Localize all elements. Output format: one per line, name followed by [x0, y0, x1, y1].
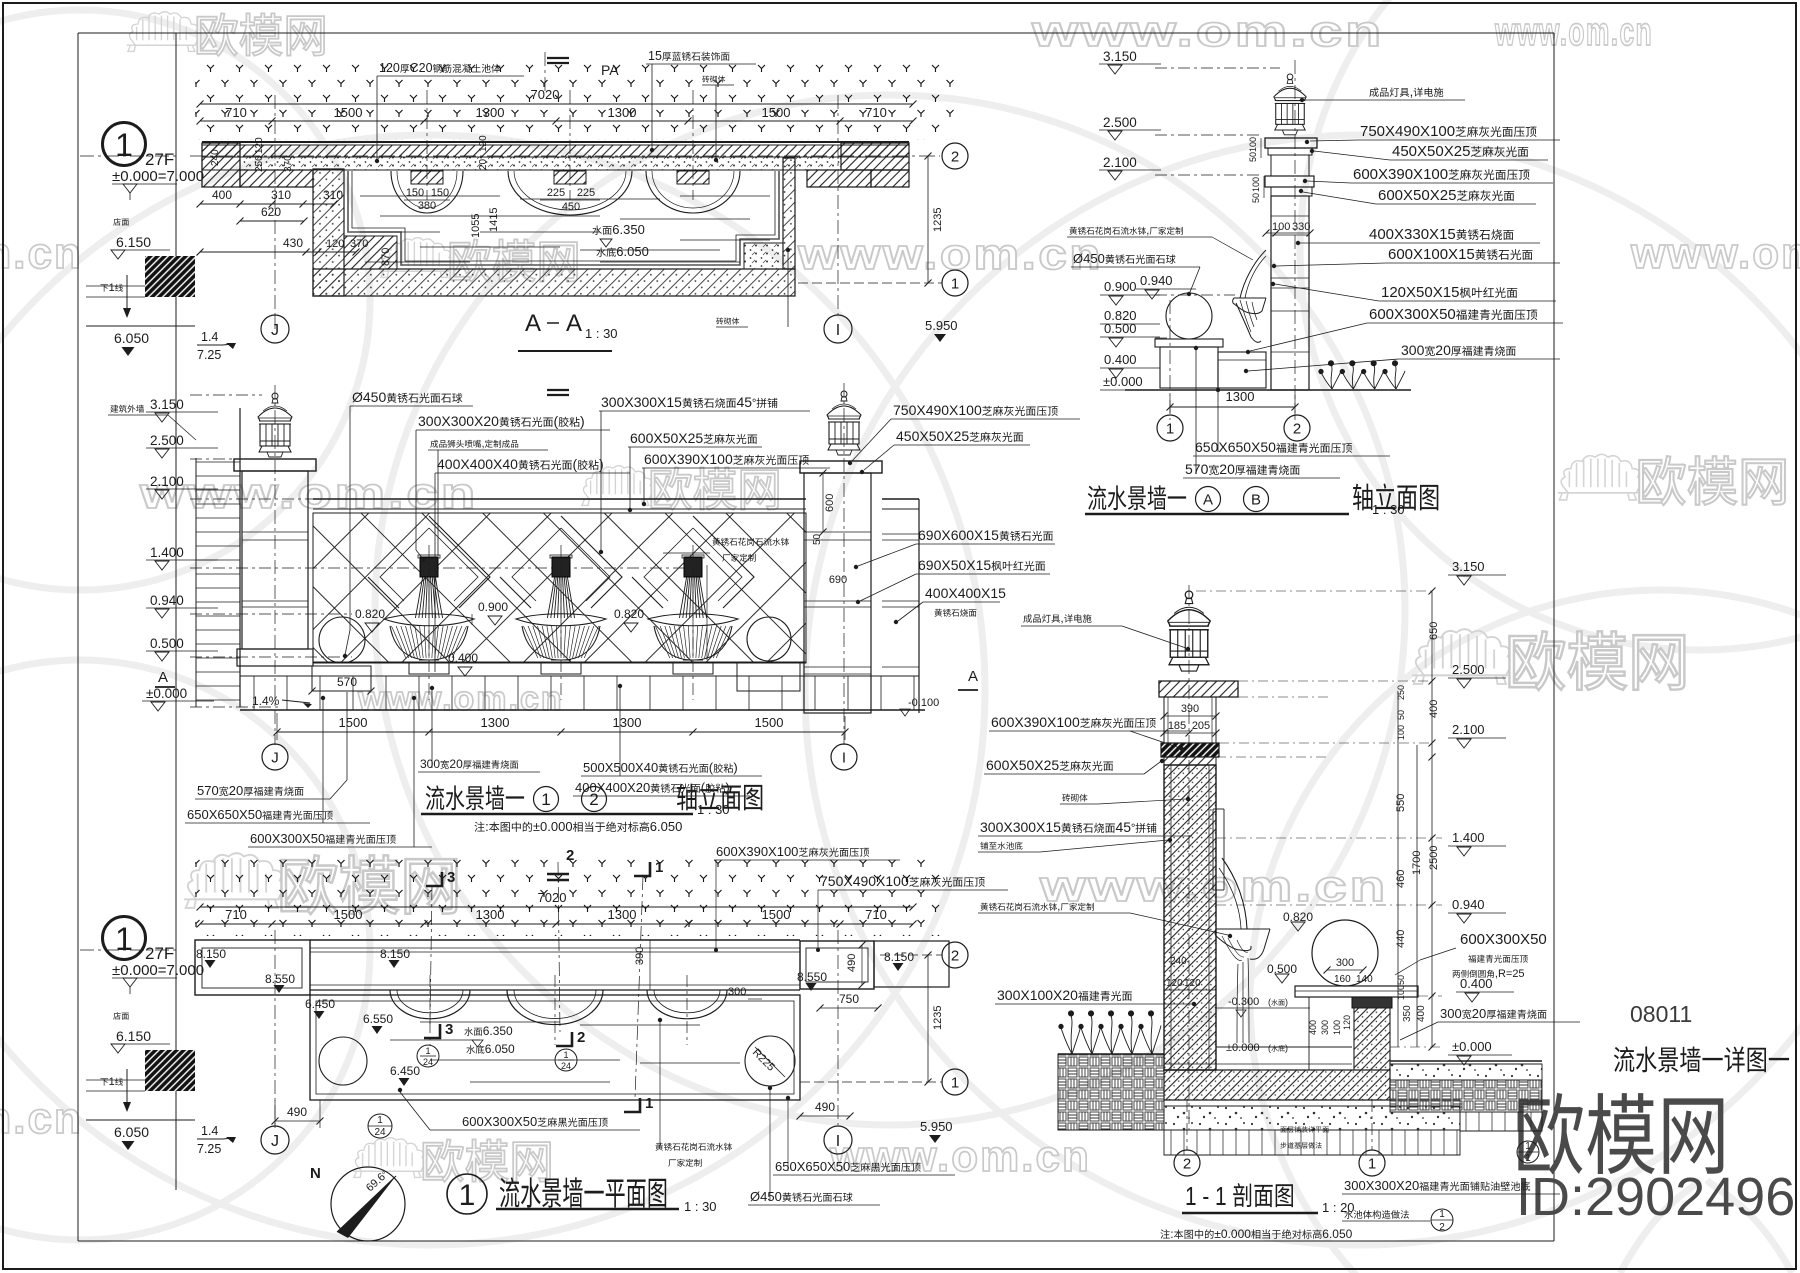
svg-text:2: 2: [951, 947, 959, 964]
svg-text:0.940: 0.940: [1140, 273, 1173, 288]
svg-text:120X50X15: 120X50X15: [1381, 284, 1459, 301]
svg-text::: :: [485, 819, 489, 834]
svg-text:1500: 1500: [762, 907, 791, 922]
svg-text:1300: 1300: [1226, 389, 1255, 404]
svg-text:2500: 2500: [1428, 846, 1440, 870]
svg-text:750X490X100: 750X490X100: [1360, 123, 1455, 140]
svg-text:1300: 1300: [608, 105, 637, 120]
svg-text:7.25: 7.25: [197, 348, 221, 362]
svg-text:2.500: 2.500: [1452, 662, 1485, 677]
svg-text:225: 225: [547, 187, 565, 199]
svg-text:1: 1: [115, 921, 133, 957]
svg-text:1: 1: [951, 275, 959, 292]
svg-text:0.400: 0.400: [1460, 976, 1493, 991]
svg-text:600X100X15: 600X100X15: [1388, 246, 1475, 263]
svg-text:1: 1: [1368, 1155, 1376, 1172]
svg-text:6.450: 6.450: [305, 997, 335, 1011]
svg-text:0.400: 0.400: [448, 651, 478, 665]
svg-text:690: 690: [829, 574, 847, 586]
svg-text:1.4: 1.4: [201, 330, 218, 344]
svg-text:300X300X20: 300X300X20: [418, 413, 499, 429]
svg-text:0.820: 0.820: [614, 607, 644, 621]
svg-text:(: (: [701, 780, 706, 795]
svg-text:J: J: [271, 1133, 279, 1150]
svg-text:8.550: 8.550: [265, 972, 295, 986]
svg-text:160: 160: [1334, 974, 1351, 985]
svg-text:710: 710: [225, 907, 247, 922]
svg-text:www.om.cn: www.om.cn: [1494, 10, 1653, 54]
svg-text:6.350: 6.350: [612, 222, 645, 237]
svg-text:6.350: 6.350: [483, 1024, 513, 1038]
svg-text:250: 250: [1396, 685, 1406, 700]
svg-text:100: 100: [1396, 985, 1406, 1000]
svg-text:PA: PA: [601, 62, 619, 78]
svg-text:300: 300: [1440, 1006, 1462, 1021]
svg-text:600X390X100: 600X390X100: [716, 844, 798, 859]
svg-text:300X300X15: 300X300X15: [980, 819, 1061, 835]
svg-text:650X650X50: 650X650X50: [1195, 439, 1276, 455]
svg-text:490: 490: [287, 1105, 307, 1119]
svg-text:1235: 1235: [932, 1006, 944, 1030]
svg-text:(: (: [554, 413, 559, 429]
svg-text:20: 20: [478, 158, 489, 170]
svg-text:2: 2: [1439, 1222, 1445, 1233]
svg-text:310: 310: [323, 188, 343, 202]
svg-text:3.150: 3.150: [1103, 49, 1137, 64]
svg-text:710: 710: [865, 105, 887, 120]
svg-text:100: 100: [1272, 221, 1290, 233]
svg-text:20: 20: [229, 783, 243, 798]
svg-text:400: 400: [212, 188, 232, 202]
svg-text:±0.000=7.000: ±0.000=7.000: [112, 168, 204, 185]
svg-text:1: 1: [1439, 1209, 1445, 1220]
svg-text:www.om.cn: www.om.cn: [0, 229, 83, 278]
svg-text:600X50X25: 600X50X25: [1378, 187, 1456, 204]
svg-text:8.150: 8.150: [196, 947, 226, 961]
svg-text:): ): [1285, 997, 1288, 1007]
svg-text:185: 185: [1168, 720, 1186, 732]
svg-text:(: (: [1268, 1043, 1271, 1053]
svg-text:1 : 30: 1 : 30: [684, 1199, 717, 1214]
svg-text:0.900: 0.900: [1104, 279, 1137, 294]
svg-text:1500: 1500: [755, 715, 784, 730]
svg-text:120: 120: [478, 135, 489, 152]
svg-text:8.550: 8.550: [797, 970, 827, 984]
svg-text:650X650X50: 650X650X50: [775, 1159, 850, 1174]
svg-text:6.550: 6.550: [363, 1012, 393, 1026]
svg-text:0.400: 0.400: [1104, 352, 1137, 367]
svg-text:A: A: [525, 310, 541, 337]
svg-text::: :: [1170, 1227, 1173, 1241]
svg-text:490: 490: [846, 954, 858, 972]
svg-text:6.050: 6.050: [650, 819, 683, 834]
svg-text:450X50X25: 450X50X25: [896, 428, 969, 444]
svg-text:400: 400: [1308, 1020, 1318, 1035]
svg-text:2: 2: [1183, 1155, 1191, 1172]
svg-text:1.4: 1.4: [201, 1124, 218, 1138]
svg-text:15: 15: [648, 49, 662, 63]
svg-text:100: 100: [1251, 177, 1261, 192]
svg-text:2.100: 2.100: [150, 474, 184, 489]
svg-text:350: 350: [1402, 1005, 1413, 1022]
svg-text:27F: 27F: [145, 944, 174, 963]
svg-text:100: 100: [1332, 1020, 1342, 1035]
svg-text:8.150: 8.150: [884, 950, 914, 964]
svg-text:300X100X20: 300X100X20: [997, 987, 1078, 1003]
svg-text:1: 1: [1166, 420, 1174, 437]
svg-text:370: 370: [283, 155, 294, 172]
svg-text:www.om.cn: www.om.cn: [829, 1132, 1091, 1181]
svg-text:A: A: [968, 668, 978, 685]
svg-text:650X650X50: 650X650X50: [187, 807, 262, 822]
svg-text:240: 240: [210, 149, 221, 166]
svg-text:1500: 1500: [334, 907, 363, 922]
svg-text:250: 250: [254, 155, 265, 172]
svg-text:6.150: 6.150: [116, 234, 151, 250]
svg-text:1: 1: [109, 282, 115, 294]
svg-text:ID:2902496: ID:2902496: [1516, 1167, 1795, 1227]
svg-text:Ø450: Ø450: [1073, 251, 1105, 266]
svg-text:A: A: [566, 310, 582, 337]
svg-text:0.940: 0.940: [150, 593, 184, 608]
svg-text:20: 20: [1219, 461, 1235, 477]
svg-text:300X300X15: 300X300X15: [601, 394, 682, 410]
svg-text:1.400: 1.400: [150, 545, 184, 560]
svg-text:I: I: [836, 322, 840, 339]
svg-text:500X500X40: 500X500X40: [583, 760, 658, 775]
svg-text:570: 570: [337, 675, 357, 689]
svg-text:430: 430: [283, 236, 303, 250]
svg-text:24: 24: [423, 1057, 433, 1067]
svg-text:www.om.cn: www.om.cn: [357, 680, 564, 718]
svg-text:400X330X15: 400X330X15: [1369, 226, 1456, 243]
svg-text:400X400X40: 400X400X40: [437, 456, 518, 472]
svg-text:120: 120: [1184, 978, 1201, 989]
svg-text:8.150: 8.150: [380, 947, 410, 961]
svg-text:±0.000: ±0.000: [1103, 374, 1143, 389]
svg-text:20: 20: [1435, 342, 1451, 358]
svg-text:1415: 1415: [488, 208, 500, 232]
svg-text:750X490X100: 750X490X100: [893, 402, 982, 418]
svg-text:1 : 30: 1 : 30: [697, 802, 730, 817]
svg-text:450: 450: [562, 201, 580, 213]
svg-text:6.050: 6.050: [114, 330, 149, 346]
svg-text:600X50X25: 600X50X25: [986, 757, 1059, 773]
svg-text:2.100: 2.100: [1103, 155, 1137, 170]
svg-text:±0.000: ±0.000: [1214, 1227, 1251, 1241]
svg-text:140: 140: [1356, 974, 1373, 985]
svg-text:5.950: 5.950: [920, 1119, 953, 1134]
svg-text:400X400X20: 400X400X20: [575, 780, 650, 795]
svg-text:1.400: 1.400: [1452, 830, 1485, 845]
svg-text:330: 330: [1292, 221, 1310, 233]
svg-text:150: 150: [431, 187, 449, 199]
svg-text:600X390X100: 600X390X100: [991, 714, 1080, 730]
svg-text:A: A: [1203, 491, 1213, 508]
svg-text:±0.000: ±0.000: [146, 686, 187, 701]
svg-text:490: 490: [815, 1100, 835, 1114]
svg-text:6.050: 6.050: [1322, 1227, 1352, 1241]
svg-text:750X490X100: 750X490X100: [820, 873, 909, 889]
svg-text:50: 50: [1396, 975, 1406, 985]
svg-text:20: 20: [449, 757, 463, 771]
svg-text:120: 120: [379, 61, 400, 75]
svg-text:08011: 08011: [1630, 1001, 1692, 1027]
svg-text:300: 300: [1320, 1020, 1330, 1035]
svg-text:(: (: [573, 456, 578, 472]
svg-text:,: ,: [482, 438, 485, 450]
svg-text:550: 550: [1395, 794, 1407, 812]
svg-text:870: 870: [380, 248, 392, 266]
svg-text:): ): [1285, 1043, 1288, 1053]
svg-text:,: ,: [1060, 611, 1063, 625]
svg-text:570: 570: [197, 783, 219, 798]
svg-text:1300: 1300: [476, 105, 505, 120]
svg-text:I: I: [842, 749, 846, 766]
svg-text:1 : 30: 1 : 30: [585, 326, 618, 341]
svg-text:205: 205: [1192, 720, 1210, 732]
svg-text:www.om.cn: www.om.cn: [0, 1094, 83, 1143]
svg-text:400: 400: [1428, 700, 1440, 718]
svg-text:600X300X50: 600X300X50: [462, 1114, 537, 1129]
svg-text:650: 650: [1428, 622, 1440, 640]
svg-text:N: N: [310, 1165, 321, 1182]
svg-text:C20: C20: [410, 61, 433, 75]
svg-text:1055: 1055: [470, 214, 482, 238]
svg-text:3.150: 3.150: [150, 397, 184, 412]
svg-text:,: ,: [1146, 225, 1149, 237]
svg-text:0.500: 0.500: [150, 636, 184, 651]
svg-text:www.om.cn: www.om.cn: [1630, 229, 1800, 278]
svg-text:50: 50: [1248, 152, 1258, 162]
svg-text:1: 1: [459, 1179, 476, 1212]
svg-text:120: 120: [1166, 978, 1183, 989]
svg-text:1: 1: [563, 1050, 568, 1060]
svg-text:620: 620: [261, 205, 281, 219]
svg-text:600: 600: [824, 494, 836, 512]
svg-text:3: 3: [447, 869, 455, 886]
svg-text:1: 1: [541, 790, 550, 809]
svg-text:±0.000: ±0.000: [1226, 1042, 1260, 1054]
svg-text:2.500: 2.500: [150, 433, 184, 448]
svg-text:): ): [580, 413, 585, 429]
svg-text:710: 710: [865, 907, 887, 922]
svg-text:1300: 1300: [613, 715, 642, 730]
svg-text:600X300X50: 600X300X50: [1460, 931, 1547, 948]
svg-text:690X600X15: 690X600X15: [918, 527, 999, 543]
svg-text:,R=25: ,R=25: [1495, 968, 1525, 980]
svg-text:±0.000=7.000: ±0.000=7.000: [112, 962, 204, 979]
svg-text:120: 120: [326, 238, 344, 250]
svg-text:7.25: 7.25: [197, 1142, 221, 1156]
svg-text:310: 310: [271, 188, 291, 202]
svg-text:450X50X25: 450X50X25: [1392, 143, 1470, 160]
svg-text:7020: 7020: [538, 890, 567, 905]
svg-text:1 - 1: 1 - 1: [1185, 1182, 1227, 1211]
svg-text:1500: 1500: [339, 715, 368, 730]
svg-text:A: A: [158, 669, 168, 686]
svg-text:50: 50: [1396, 710, 1406, 720]
svg-text:Ø450: Ø450: [750, 1189, 782, 1204]
svg-text:1: 1: [1525, 1153, 1531, 1164]
svg-text:3.150: 3.150: [1452, 559, 1485, 574]
svg-text:2: 2: [577, 1029, 585, 1046]
svg-text:5.950: 5.950: [925, 318, 958, 333]
svg-text:600X300X50: 600X300X50: [1369, 306, 1456, 323]
svg-text:300: 300: [728, 986, 746, 998]
svg-text:1: 1: [115, 127, 133, 163]
svg-text:): ): [733, 760, 737, 775]
svg-text:100: 100: [1248, 137, 1258, 152]
svg-text:1: 1: [425, 1046, 430, 1056]
svg-text:2: 2: [951, 148, 959, 165]
svg-text:J: J: [271, 749, 279, 766]
svg-text:150: 150: [406, 187, 424, 199]
svg-text:-0.100: -0.100: [908, 697, 939, 709]
svg-text:1 : 30: 1 : 30: [1372, 502, 1405, 517]
svg-text:6.450: 6.450: [390, 1064, 420, 1078]
svg-text:380: 380: [418, 200, 436, 212]
svg-text:,: ,: [1410, 84, 1414, 99]
svg-text:390: 390: [634, 947, 646, 965]
svg-text:24: 24: [561, 1061, 571, 1071]
svg-text:0.900: 0.900: [478, 600, 508, 614]
svg-text:2: 2: [1293, 420, 1301, 437]
svg-text:1: 1: [109, 1076, 115, 1088]
svg-text:1: 1: [655, 859, 663, 876]
svg-text:1300: 1300: [476, 907, 505, 922]
svg-text:100: 100: [1396, 725, 1406, 740]
svg-text:Ø450: Ø450: [352, 389, 386, 405]
svg-text:B: B: [1251, 491, 1261, 508]
svg-text:600X300X50: 600X300X50: [250, 831, 325, 846]
svg-text:50: 50: [1251, 193, 1261, 203]
svg-text:710: 710: [225, 105, 247, 120]
svg-text:600X390X100: 600X390X100: [1353, 166, 1448, 183]
svg-text:300: 300: [420, 757, 440, 771]
svg-text:1300: 1300: [608, 907, 637, 922]
svg-text:440: 440: [1395, 930, 1407, 948]
svg-text:-0.300: -0.300: [1228, 996, 1259, 1008]
svg-text:300X300X20: 300X300X20: [1344, 1178, 1419, 1193]
svg-text:I: I: [836, 1133, 840, 1150]
svg-text:45: 45: [1116, 819, 1132, 835]
svg-text:460: 460: [1395, 870, 1407, 888]
svg-text:1.4%: 1.4%: [252, 694, 280, 708]
svg-text:1: 1: [1525, 1141, 1531, 1152]
svg-text:400X400X15: 400X400X15: [925, 585, 1006, 601]
svg-text:www.om.cn: www.om.cn: [1031, 7, 1384, 56]
svg-text:240: 240: [1170, 956, 1187, 967]
svg-text:120: 120: [1342, 1015, 1352, 1030]
svg-text:2.100: 2.100: [1452, 722, 1485, 737]
svg-text:0.940: 0.940: [1452, 897, 1485, 912]
svg-text:,: ,: [1057, 901, 1060, 913]
svg-text:6.150: 6.150: [116, 1028, 151, 1044]
svg-text:1300: 1300: [481, 715, 510, 730]
svg-text:0.820: 0.820: [355, 607, 385, 621]
svg-text:1: 1: [645, 1095, 653, 1112]
svg-text:1500: 1500: [334, 105, 363, 120]
svg-text:±0.000: ±0.000: [533, 819, 573, 834]
svg-text:300: 300: [1401, 342, 1425, 358]
svg-text:300: 300: [1336, 957, 1354, 969]
svg-text:1 : 20: 1 : 20: [1322, 1200, 1355, 1215]
svg-text:±0.000: ±0.000: [1452, 1039, 1492, 1054]
svg-text:3: 3: [445, 1021, 453, 1038]
svg-text:6.050: 6.050: [616, 244, 649, 259]
svg-text:600X390X100: 600X390X100: [644, 451, 733, 467]
svg-text:690X50X15: 690X50X15: [918, 557, 991, 573]
svg-text:50: 50: [812, 533, 823, 545]
svg-text:(: (: [1268, 997, 1271, 1007]
svg-text:2: 2: [566, 847, 574, 864]
svg-text:370: 370: [350, 238, 368, 250]
svg-text:120: 120: [254, 137, 265, 154]
svg-text:6.050: 6.050: [485, 1042, 515, 1056]
svg-text:225: 225: [577, 187, 595, 199]
svg-text:2.500: 2.500: [1103, 115, 1137, 130]
svg-text:400: 400: [1416, 1005, 1427, 1022]
svg-text:750: 750: [839, 992, 859, 1006]
svg-text:45: 45: [737, 394, 753, 410]
svg-text:1235: 1235: [932, 208, 944, 232]
svg-text:20: 20: [1472, 1006, 1486, 1021]
svg-text:(: (: [709, 760, 714, 775]
svg-text:0.500: 0.500: [1104, 321, 1137, 336]
svg-text:570: 570: [1185, 461, 1209, 477]
svg-text:24: 24: [374, 1127, 386, 1138]
svg-text:1: 1: [377, 1115, 383, 1126]
svg-text:390: 390: [1181, 703, 1199, 715]
svg-text:1: 1: [951, 1074, 959, 1091]
svg-text:27F: 27F: [145, 150, 174, 169]
svg-text:600X50X25: 600X50X25: [630, 430, 703, 446]
svg-text:2: 2: [589, 790, 598, 809]
svg-text:6.050: 6.050: [114, 1124, 149, 1140]
svg-text:1500: 1500: [762, 105, 791, 120]
